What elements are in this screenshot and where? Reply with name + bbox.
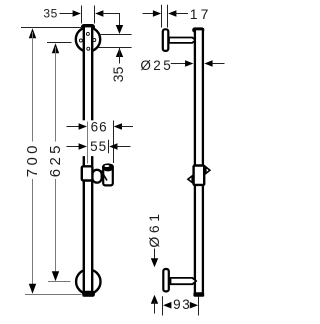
svg-text:625: 625 bbox=[47, 142, 64, 177]
svg-text:17: 17 bbox=[190, 6, 212, 22]
svg-text:Ø25: Ø25 bbox=[140, 58, 173, 73]
svg-text:66: 66 bbox=[91, 120, 108, 135]
svg-text:Ø61: Ø61 bbox=[146, 210, 162, 247]
svg-text:55: 55 bbox=[90, 139, 107, 154]
svg-text:93: 93 bbox=[173, 297, 191, 312]
svg-text:35: 35 bbox=[110, 66, 126, 82]
svg-text:35: 35 bbox=[43, 6, 58, 20]
svg-text:700: 700 bbox=[24, 142, 41, 177]
